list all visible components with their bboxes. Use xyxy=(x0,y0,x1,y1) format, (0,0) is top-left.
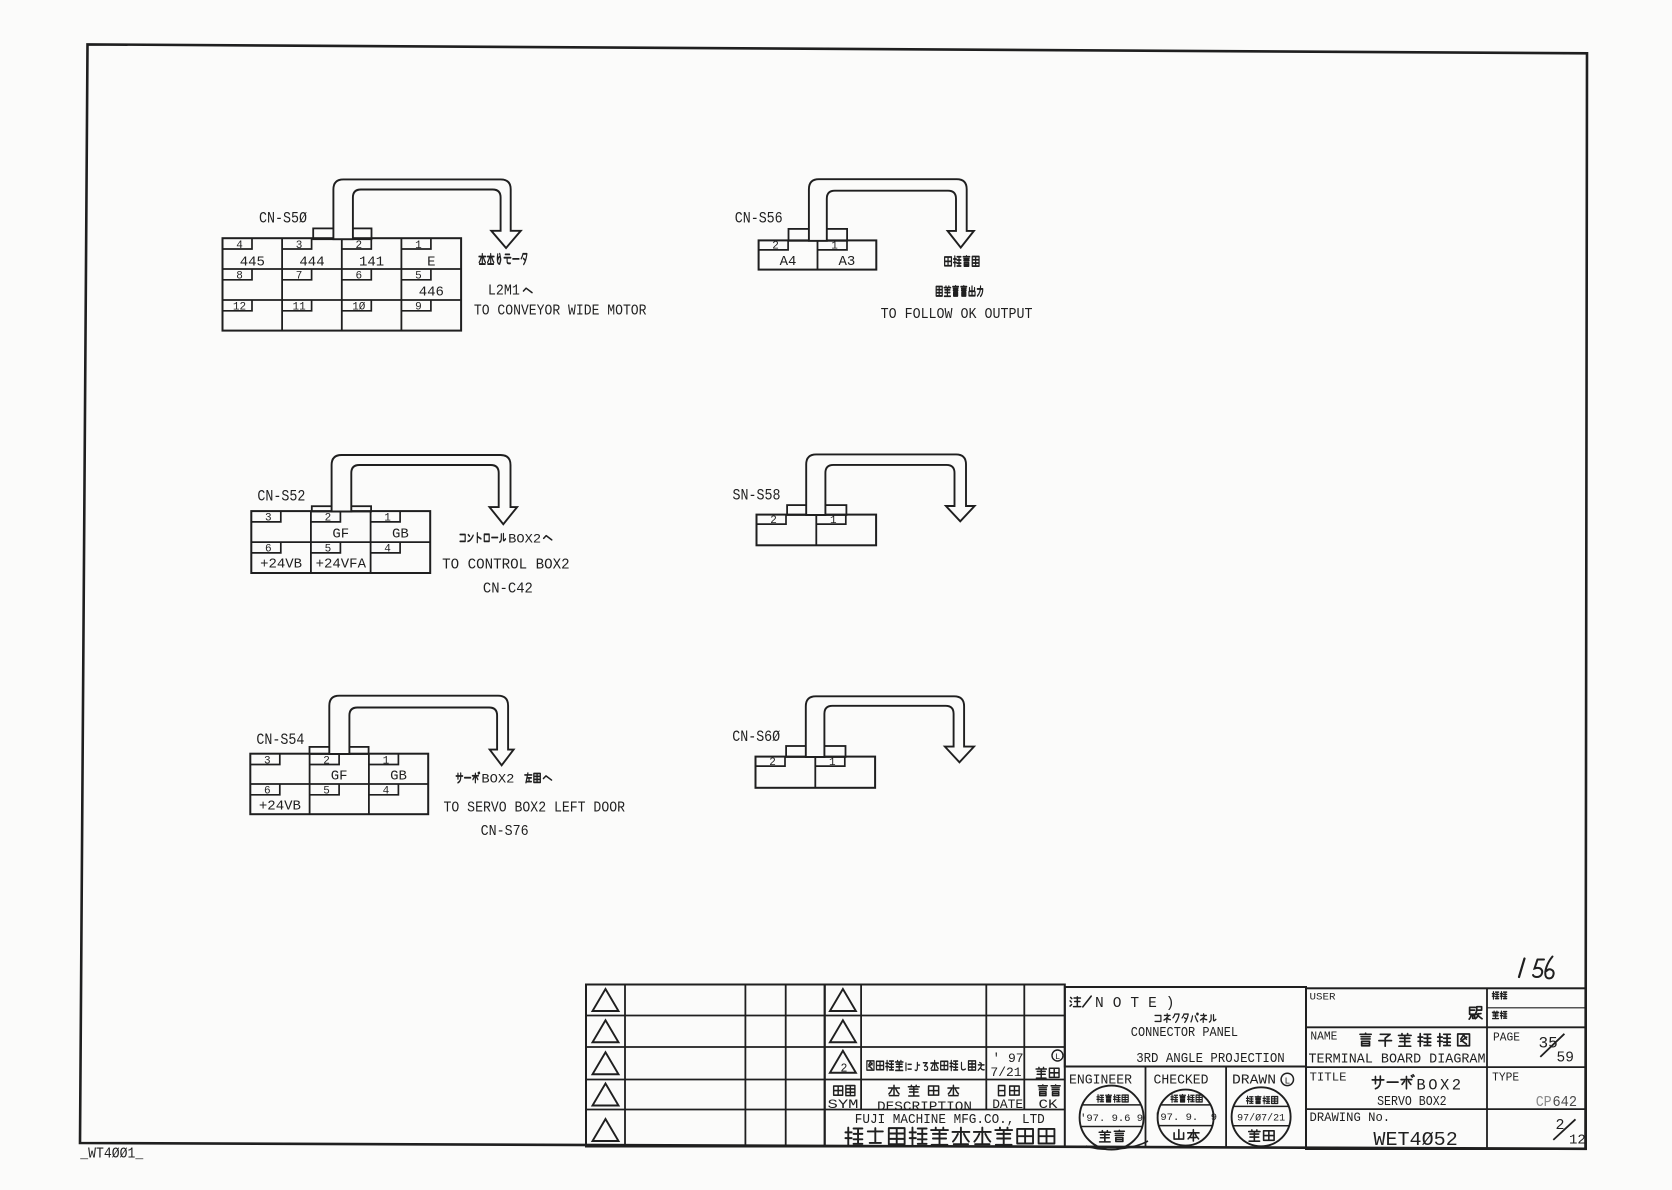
svg-text:WET4Ø52: WET4Ø52 xyxy=(1373,1129,1457,1151)
pin 6 tab of CN-S54 xyxy=(250,784,279,795)
pin 6 tab of CN-S50 xyxy=(342,269,372,280)
svg-text:3: 3 xyxy=(264,755,271,767)
pin 5 tab of CN-S50 xyxy=(401,269,431,280)
svg-text:2: 2 xyxy=(770,515,777,527)
svg-text:TITLE: TITLE xyxy=(1310,1070,1347,1084)
pin 1 tab of CN-S54 xyxy=(369,754,399,765)
pin 2 tab of CN-S52 xyxy=(311,511,341,522)
revision triangle blank M1 xyxy=(830,989,856,1011)
svg-text:4: 4 xyxy=(384,544,391,556)
note: connector panel (Japanese) xyxy=(1155,1015,1161,1021)
revision triangle blank L5 xyxy=(593,1119,619,1141)
pin 11 tab of CN-S50 xyxy=(282,300,312,311)
svg-text:2: 2 xyxy=(840,1062,847,1075)
wire stub base of CN-S60 xyxy=(786,746,845,757)
connector SN-S58 body xyxy=(757,515,877,546)
handwritten page number 156 xyxy=(1519,959,1525,978)
svg-text:NAME: NAME xyxy=(1310,1029,1337,1043)
svg-text:NOTE): NOTE) xyxy=(1095,996,1184,1012)
svg-text:446: 446 xyxy=(419,285,444,301)
pin 6 tab of CN-S52 xyxy=(251,542,280,553)
svg-text:2: 2 xyxy=(769,757,776,769)
pin 1Ø tab of CN-S50 xyxy=(342,300,372,311)
svg-text:+24VFA: +24VFA xyxy=(316,557,367,573)
pin 5 tab of CN-S54 xyxy=(310,784,340,795)
svg-text:8: 8 xyxy=(236,271,243,283)
svg-text:445: 445 xyxy=(240,254,265,270)
svg-text:L2M1: L2M1 xyxy=(488,284,520,300)
svg-text:CONNECTOR PANEL: CONNECTOR PANEL xyxy=(1131,1026,1238,1041)
revision 2 description: zumen seibi ni yoru zenmen sashikae xyxy=(867,1061,874,1070)
svg-text:TO CONVEYOR WIDE MOTOR: TO CONVEYOR WIDE MOTOR xyxy=(474,303,647,320)
revision triangle 2 with mark xyxy=(830,1051,856,1073)
svg-text:L: L xyxy=(1284,1075,1290,1086)
revision table left xyxy=(586,985,825,1147)
svg-text:PAGE: PAGE xyxy=(1493,1030,1520,1044)
pin 9 tab of CN-S50 xyxy=(401,300,431,311)
wire loop arrow from CN-S54 xyxy=(329,696,513,766)
svg-text:11: 11 xyxy=(292,302,306,314)
svg-text:CN-S6Ø: CN-S6Ø xyxy=(732,728,780,746)
svg-text:GF: GF xyxy=(331,769,348,785)
svg-text:12: 12 xyxy=(1569,1133,1586,1149)
svg-text:DRAWING No.: DRAWING No. xyxy=(1310,1111,1391,1125)
wire stub base of CN-S50 xyxy=(313,228,371,239)
svg-text:SN-S58: SN-S58 xyxy=(733,486,781,504)
wire loop arrow from CN-S52 xyxy=(332,455,517,524)
header row SYM / DESCRIPTION / DATE / CK xyxy=(834,1086,843,1095)
svg-text:1: 1 xyxy=(415,240,422,252)
pin 5 tab of CN-S52 xyxy=(311,542,341,553)
pin 1 tab of SN-S58 xyxy=(816,515,846,525)
svg-text:6: 6 xyxy=(264,786,271,798)
svg-text:5: 5 xyxy=(325,544,332,556)
svg-text:CN-C42: CN-C42 xyxy=(483,581,533,597)
svg-text:TO FOLLOW OK OUTPUT: TO FOLLOW OK OUTPUT xyxy=(881,306,1033,323)
svg-text:FUJI MACHINE MFG.CO., LTD: FUJI MACHINE MFG.CO., LTD xyxy=(855,1113,1045,1128)
approval cells frame xyxy=(1065,1066,1306,1068)
pin 8 tab of CN-S50 xyxy=(223,269,253,280)
wire loop arrow from CN-S50 xyxy=(333,179,520,248)
pin 4 tab of CN-S52 xyxy=(371,542,401,553)
revision triangle blank L2 xyxy=(593,1020,619,1042)
wire stub base of CN-S56 xyxy=(789,229,848,241)
svg-text:CN-S54: CN-S54 xyxy=(256,731,304,749)
svg-text:5: 5 xyxy=(415,271,422,283)
revision triangle blank L1 xyxy=(593,989,619,1011)
note: to control box2 (Japanese) xyxy=(460,535,465,542)
svg-text:CN-S52: CN-S52 xyxy=(257,488,305,506)
wire loop arrow from SN-S58 xyxy=(806,454,974,521)
svg-text:97/Ø7/21: 97/Ø7/21 xyxy=(1237,1112,1285,1124)
connector CN-S52 body xyxy=(251,511,430,573)
svg-text:1: 1 xyxy=(383,755,390,767)
svg-text:3: 3 xyxy=(296,240,303,252)
svg-text:9: 9 xyxy=(415,302,422,314)
svg-text:3: 3 xyxy=(265,513,272,525)
pin 1 tab of CN-S52 xyxy=(371,511,401,522)
svg-text:' 97: ' 97 xyxy=(992,1051,1023,1066)
wire stub base of CN-S54 xyxy=(310,747,369,754)
svg-text:1: 1 xyxy=(831,241,838,253)
svg-text:1: 1 xyxy=(829,757,836,769)
pin 4 tab of CN-S50 xyxy=(223,238,253,249)
svg-text:+24VB: +24VB xyxy=(259,799,301,815)
wire loop arrow from CN-S60 xyxy=(806,696,974,762)
svg-text:GB: GB xyxy=(392,526,409,542)
svg-text:'97. 9.6 9: '97. 9.6 9 xyxy=(1080,1113,1143,1125)
pin 3 tab of CN-S54 xyxy=(250,754,279,765)
svg-text:A4: A4 xyxy=(780,254,797,270)
svg-text:CHECKED: CHECKED xyxy=(1154,1074,1209,1089)
pin 12 tab of CN-S50 xyxy=(223,300,253,311)
svg-text:+24VB: +24VB xyxy=(260,557,302,573)
svg-text:DESCRIPTION: DESCRIPTION xyxy=(877,1099,972,1114)
revision 2 CK stamp L and Esaka xyxy=(1052,1050,1063,1061)
svg-text:1: 1 xyxy=(830,515,837,527)
connector CN-S50 body xyxy=(223,238,462,330)
svg-text:7: 7 xyxy=(296,271,303,283)
wire loop arrow from CN-S56 xyxy=(809,179,974,247)
wire stub base of SN-S58 xyxy=(787,505,846,515)
note label xyxy=(1070,997,1081,1007)
svg-text:BOX2: BOX2 xyxy=(481,773,514,787)
svg-text:TO SERVO BOX2 LEFT DOOR: TO SERVO BOX2 LEFT DOOR xyxy=(444,800,626,817)
svg-text:CN-S56: CN-S56 xyxy=(735,210,783,228)
svg-text:CN-S76: CN-S76 xyxy=(481,824,529,840)
svg-text:1: 1 xyxy=(384,513,391,525)
svg-text:GB: GB xyxy=(390,769,407,785)
revision triangle blank L4 xyxy=(593,1084,619,1106)
title block frame xyxy=(1306,988,1586,1149)
svg-text:SERVO BOX2: SERVO BOX2 xyxy=(1377,1095,1447,1110)
svg-text:SYM: SYM xyxy=(828,1097,859,1112)
svg-text:6: 6 xyxy=(265,544,272,556)
svg-text:141: 141 xyxy=(359,254,384,270)
pin 1 tab of CN-S56 xyxy=(818,240,848,250)
svg-text:1Ø: 1Ø xyxy=(352,302,366,314)
svg-text:USER: USER xyxy=(1310,993,1336,1004)
svg-text:4: 4 xyxy=(383,786,390,798)
svg-text:L: L xyxy=(1055,1052,1060,1062)
svg-text:7/21: 7/21 xyxy=(990,1065,1021,1080)
pin 2 tab of CN-S60 xyxy=(756,757,786,767)
svg-text:TYPE: TYPE xyxy=(1492,1070,1519,1084)
svg-text:CP: CP xyxy=(1536,1095,1552,1111)
svg-text:_WT4ØØ1_: _WT4ØØ1_ xyxy=(79,1146,143,1162)
svg-text:CK: CK xyxy=(1039,1097,1058,1112)
svg-text:BOX2: BOX2 xyxy=(508,532,541,546)
maker name Fuji Kikai Seizo Kabushiki Kaisha (Japanese) xyxy=(845,1128,862,1145)
svg-text:TERMINAL BOARD DIAGRAM: TERMINAL BOARD DIAGRAM xyxy=(1309,1053,1486,1068)
pin 7 tab of CN-S50 xyxy=(282,269,312,280)
svg-text:GF: GF xyxy=(332,526,349,542)
svg-text:642: 642 xyxy=(1553,1095,1578,1111)
note block frame xyxy=(1065,987,1306,1067)
pin 1 tab of CN-S50 xyxy=(401,238,431,249)
svg-text:ENGINEER: ENGINEER xyxy=(1069,1074,1132,1089)
svg-text:5: 5 xyxy=(323,786,330,798)
note: width-set motor (Japanese) for CN-S50 xyxy=(479,254,486,264)
svg-text:2: 2 xyxy=(355,240,362,252)
handwritten dono (customer honorific) xyxy=(1469,1007,1482,1019)
connector CN-S54 body xyxy=(250,754,428,815)
pin 3 tab of CN-S52 xyxy=(251,511,280,522)
connector CN-S60 body xyxy=(756,757,876,788)
wire stub base of CN-S52 xyxy=(312,506,371,511)
svg-text:12: 12 xyxy=(233,302,246,314)
svg-text:BOX2: BOX2 xyxy=(1416,1076,1463,1094)
revision triangle blank M2 xyxy=(830,1020,856,1042)
svg-text:4: 4 xyxy=(236,240,243,252)
svg-text:DRAWN: DRAWN xyxy=(1232,1074,1276,1089)
svg-text:TO CONTROL BOX2: TO CONTROL BOX2 xyxy=(442,557,570,574)
pin 3 tab of CN-S50 xyxy=(282,238,312,249)
svg-text:6: 6 xyxy=(355,271,362,283)
svg-text:A3: A3 xyxy=(838,254,855,270)
pin 2 tab of SN-S58 xyxy=(757,515,787,525)
svg-text:444: 444 xyxy=(299,254,324,270)
svg-text:'97. 9. 9: '97. 9. 9 xyxy=(1154,1112,1217,1124)
revision triangle blank L3 xyxy=(593,1052,619,1074)
pin 1 tab of CN-S60 xyxy=(815,757,845,767)
shuban cell (main no) xyxy=(1492,1011,1498,1018)
svg-text:2: 2 xyxy=(772,241,779,253)
pin 2 tab of CN-S54 xyxy=(310,754,340,765)
svg-text:DATE: DATE xyxy=(992,1097,1023,1112)
svg-text:59: 59 xyxy=(1557,1051,1574,1067)
svg-text:2: 2 xyxy=(325,513,332,525)
pin 2 tab of CN-S50 xyxy=(342,238,372,249)
svg-text:3RD ANGLE PROJECTION: 3RD ANGLE PROJECTION xyxy=(1136,1052,1285,1067)
note: to servo box2 left door (Japanese) xyxy=(456,773,462,783)
connector CN-S56 body xyxy=(759,240,877,269)
svg-text:2: 2 xyxy=(323,755,330,767)
pin 2 tab of CN-S56 xyxy=(759,240,789,250)
revision table center xyxy=(825,985,1065,1147)
note: external signal (Japanese) for CN-S56 xyxy=(945,257,952,266)
bunban cell (part no) xyxy=(1492,992,1498,999)
svg-text:CN-S5Ø: CN-S5Ø xyxy=(259,210,307,228)
note: follow-ok output (Japanese) xyxy=(936,286,942,295)
svg-text:E: E xyxy=(427,254,435,270)
pin 4 tab of CN-S54 xyxy=(369,784,399,795)
